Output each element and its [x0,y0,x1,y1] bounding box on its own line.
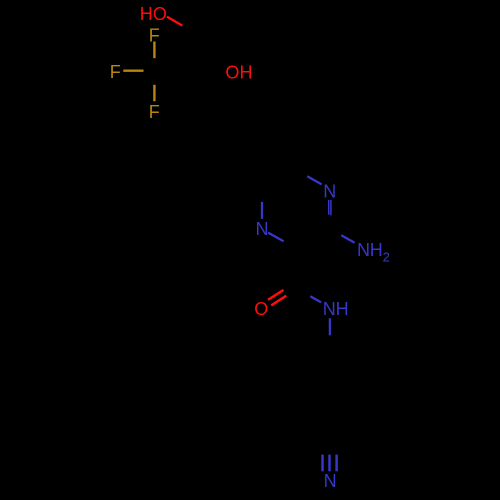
svg-text:N: N [256,219,269,239]
triple bond C#N (nitrile, blue half, three lines) [321,455,324,472]
bond C8a-N1 (quinoxaline, blue half) [307,176,321,184]
svg-text:F: F [110,62,121,82]
svg-text:F: F [149,102,160,122]
svg-text:H: H [370,240,383,260]
double bond C=O (carbonyl, red halves) [268,290,283,300]
svg-text:H: H [140,4,153,24]
bond C-F left (orange half) [123,69,143,71]
bond N4-C4a (blue half) [261,202,263,219]
double bond N1=C2 (blue half, two close lines) [328,200,330,215]
svg-text:N: N [324,471,337,491]
bond C2-NH2 (blue half) [341,235,354,243]
bond C-F top (orange half) [153,42,155,59]
svg-text:N: N [357,240,370,260]
svg-text:N: N [323,181,336,201]
svg-text:O: O [153,4,167,24]
bond C(=O)-NH (amide, blue half) [310,296,321,302]
svg-text:H: H [336,299,349,319]
bond N4-C3 (blue half) [268,233,284,242]
svg-text:O: O [225,63,239,83]
svg-text:O: O [254,299,268,319]
svg-text:N: N [323,299,336,319]
bond O-CH2 (hydroxymethyl, red half) [167,17,183,26]
bond C-F bottom (orange half) [153,85,155,101]
svg-text:2: 2 [383,250,390,265]
svg-text:F: F [149,25,160,45]
bond NH-C1' (blue half) [329,318,331,335]
svg-text:H: H [240,63,253,83]
